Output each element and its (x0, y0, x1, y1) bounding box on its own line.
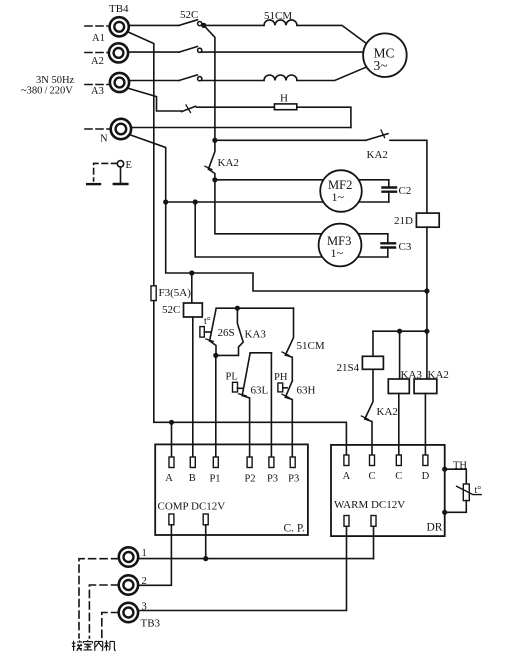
ground under E (120, 167, 122, 184)
contact KA2 left (208, 140, 215, 169)
terminal A1 (110, 17, 129, 36)
node 26S bottom junction (213, 353, 218, 358)
defrost box DR (331, 445, 445, 536)
terminal 2 (119, 575, 138, 594)
node 52C coil tap (189, 270, 194, 275)
svg-text:C: C (395, 471, 402, 482)
wire N terminal to vertical (129, 135, 166, 203)
terminal CP COMP (169, 514, 174, 525)
pressure switch 63L contact (242, 353, 250, 396)
svg-text:C: C (368, 471, 375, 482)
svg-text:t°: t° (204, 316, 211, 327)
fuse F3(5A) (151, 286, 156, 301)
wire terminal3 to WARM (138, 526, 346, 610)
fan motor MF2 (320, 170, 362, 212)
svg-text:~380 / 220V: ~380 / 220V (21, 86, 73, 97)
terminal N (111, 119, 131, 139)
terminal 3 (119, 603, 138, 622)
wire contact1 to 51CM coil (202, 24, 264, 26)
svg-text:52C: 52C (162, 304, 180, 316)
wire dashed earth link (94, 163, 117, 181)
terminal DR A (344, 455, 349, 466)
contact KA2 lower (365, 369, 373, 419)
wire contact4 to heater H (197, 106, 275, 108)
svg-text:F3(5A): F3(5A) (159, 287, 192, 299)
terminal DR C1 (370, 455, 375, 466)
wire A3 tap down to 52C pole4 (127, 88, 181, 111)
contact 52C pole 4 (182, 106, 196, 111)
svg-text:KA2: KA2 (367, 149, 388, 161)
contact KA2 right (366, 134, 388, 141)
terminal CP DC12V (203, 514, 208, 525)
svg-text:51CM: 51CM (264, 10, 292, 22)
label to indoor unit (72, 640, 116, 651)
terminal CP B (190, 457, 195, 468)
coil 52C contactor coil (191, 273, 193, 303)
svg-text:A2: A2 (91, 56, 104, 67)
svg-text:A: A (165, 473, 173, 484)
svg-text:TB4: TB4 (109, 3, 129, 15)
wire DR DC12V lead (373, 526, 375, 558)
node right bus junction 2 (424, 329, 429, 334)
coil KA3 (399, 331, 401, 379)
terminal DR D (423, 455, 428, 466)
motor MC compressor (363, 33, 407, 77)
terminal 1 (119, 547, 138, 566)
svg-text:B: B (189, 473, 196, 484)
wire dashed stub A1 (85, 25, 109, 27)
node TH bottom (442, 510, 447, 515)
wire coil to MC (297, 67, 367, 81)
svg-text:1~: 1~ (332, 190, 345, 204)
contact 52C pole 2 (179, 47, 197, 53)
terminal DR DC12V (371, 516, 376, 527)
terminal DR WARM (344, 516, 349, 527)
node KA2 bottom junction (212, 177, 217, 182)
terminal DR C2 (396, 455, 401, 466)
wire 52C coil to terminal B (192, 317, 194, 457)
capacitor C3 (387, 234, 389, 242)
wire heater to N line (297, 107, 351, 127)
wire 52C pole1 down to KA2 (204, 25, 215, 140)
wire coil to MC (297, 25, 367, 43)
svg-text:52C: 52C (180, 9, 198, 21)
thermostat 26S contact (210, 308, 217, 341)
wire MF2 upper feed (215, 179, 389, 181)
svg-text:P2: P2 (244, 474, 255, 485)
svg-text:PL: PL (226, 372, 238, 383)
terminal A2 (109, 43, 128, 62)
thermistor TH (463, 484, 469, 501)
svg-text:DR: DR (427, 522, 443, 534)
node TH top (442, 467, 447, 472)
wire MF3 upper feed (215, 180, 388, 234)
wire terminal1 bus (138, 558, 373, 560)
wire terminal2 to COMP (138, 525, 171, 586)
svg-text:A3: A3 (91, 86, 104, 97)
wire right bus below 21D (426, 227, 428, 379)
wire distribution bus from fuse (154, 301, 347, 454)
wire A3 to contact (129, 80, 179, 82)
terminal CP P2 (247, 457, 252, 468)
svg-text:1~: 1~ (331, 246, 344, 260)
wire 26S top bus (216, 307, 293, 309)
wire to terminal P1 (215, 355, 217, 457)
svg-text:D: D (422, 471, 430, 482)
contact 51CM auxiliary (285, 308, 293, 355)
node KA2 top junction (212, 138, 217, 143)
svg-text:A: A (343, 471, 351, 482)
relay 21D (416, 213, 439, 227)
svg-text:A1: A1 (92, 33, 105, 44)
svg-text:63H: 63H (297, 385, 316, 397)
pressure switch 63H contact (285, 381, 292, 397)
wire to terminal P3 first (270, 353, 272, 457)
node KA3 coil tap (397, 329, 402, 334)
svg-text:C3: C3 (399, 241, 412, 253)
node junction after 52C pole1 (201, 23, 206, 28)
svg-text:PH: PH (274, 372, 288, 383)
wire dashed stub A2 (85, 52, 109, 54)
wire to CP terminal A (171, 422, 173, 457)
wire dashed lead 3 (102, 613, 119, 639)
terminal CP A (169, 457, 174, 468)
svg-text:21D: 21D (394, 215, 413, 227)
wire contact3 to coil (202, 80, 264, 82)
thermal bulb 26S (200, 327, 204, 338)
terminal E (117, 161, 123, 167)
svg-text:P3: P3 (267, 474, 278, 485)
svg-text:26S: 26S (218, 327, 235, 339)
terminal CP P1 (213, 457, 218, 468)
wire dashed lead 1 (79, 559, 119, 638)
node MF3 lower tap (193, 199, 198, 204)
wire N line (131, 127, 351, 129)
svg-text:3N 50Hz: 3N 50Hz (36, 75, 75, 86)
wire TH bottom (445, 501, 467, 513)
wire MF2 lower feed from N (166, 201, 389, 203)
svg-text:P1: P1 (209, 474, 220, 485)
svg-text:TB3: TB3 (141, 618, 161, 630)
contact 52C pole 3 (179, 75, 197, 81)
wire A1 to contact (129, 24, 179, 26)
terminal CP P3b (290, 457, 295, 468)
svg-text:51CM: 51CM (297, 340, 325, 352)
wire MF3 lower feed (195, 202, 388, 257)
wire dashed stub A3 (85, 84, 109, 86)
controller box C.P. (155, 444, 308, 535)
svg-text:C. P.: C. P. (284, 523, 306, 535)
node right bus junction 1 (424, 288, 429, 293)
svg-text:63L: 63L (251, 385, 269, 397)
overload heater 51CM phase3 coil (264, 75, 297, 81)
capacitor C2 (388, 180, 390, 186)
bulb PL (233, 382, 238, 392)
contact KA3 (216, 308, 243, 355)
wire N step line to right bus (166, 202, 427, 291)
svg-text:WARM DC12V: WARM DC12V (334, 499, 405, 511)
terminal CP P3a (269, 457, 274, 468)
wire 63L top link (250, 352, 271, 354)
svg-text:H: H (280, 93, 288, 105)
svg-text:KA2: KA2 (428, 369, 449, 381)
node N junction on vertical (163, 199, 168, 204)
switch 21S4 (372, 331, 374, 356)
resistor H crankcase heater (274, 104, 296, 110)
svg-text:1: 1 (142, 548, 147, 559)
svg-text:21S4: 21S4 (337, 362, 360, 374)
svg-text:E: E (126, 160, 132, 171)
coil KA2 (414, 379, 437, 394)
wire dashed lead 2 (89, 585, 118, 638)
node terminal A tap (169, 420, 174, 425)
svg-text:KA2: KA2 (218, 157, 239, 169)
svg-text:3~: 3~ (374, 58, 388, 73)
svg-text:KA3: KA3 (245, 329, 267, 341)
svg-text:COMP DC12V: COMP DC12V (158, 501, 226, 513)
node KA3 top junction (235, 306, 240, 311)
bulb PH (278, 383, 283, 392)
ground left earth (87, 183, 100, 185)
svg-text:P3: P3 (288, 474, 299, 485)
wire coils top bus (373, 330, 427, 332)
terminal A3 (110, 73, 129, 92)
wire TH top (445, 469, 467, 484)
fan motor MF3 (319, 224, 362, 267)
wire CP DC12V lead (205, 525, 207, 559)
svg-text:C2: C2 (399, 185, 412, 197)
svg-text:N: N (100, 134, 108, 145)
wire A1 tap down to fuse line (127, 32, 154, 286)
overload heater 51CM phase1 coil (264, 20, 297, 26)
svg-text:t°: t° (475, 485, 482, 496)
wire contact2 to MC (202, 51, 363, 53)
contact 52C pole 1 (179, 20, 197, 26)
svg-text:KA2: KA2 (377, 406, 398, 418)
wire KA2 right to right bus (390, 140, 427, 213)
wire dashed stub N (85, 128, 109, 130)
node DC12V CP tap (203, 556, 208, 561)
wire fan feed line to KA2 right contact (215, 139, 366, 141)
wire A2 to contact (128, 51, 179, 53)
